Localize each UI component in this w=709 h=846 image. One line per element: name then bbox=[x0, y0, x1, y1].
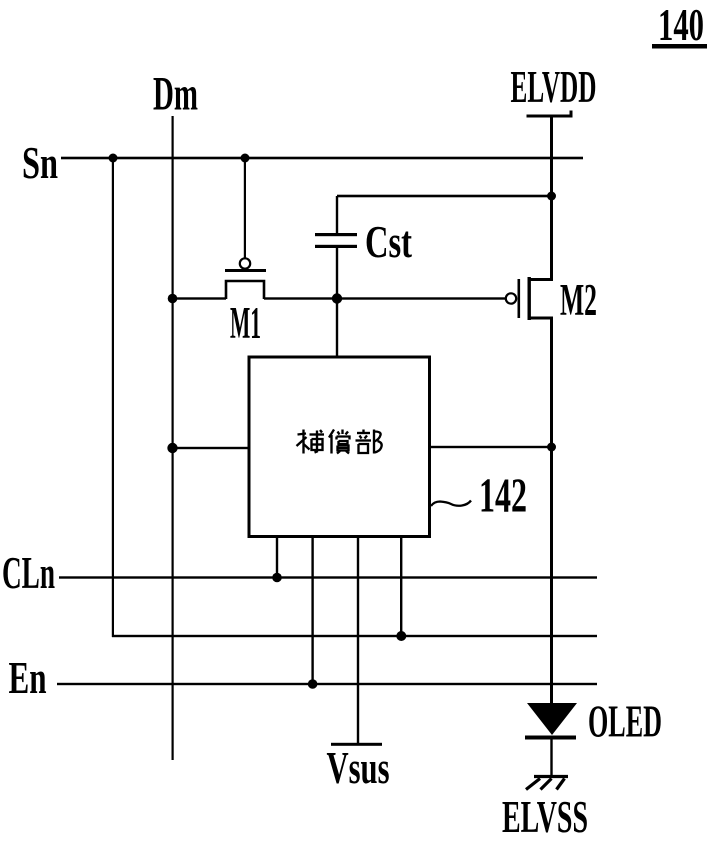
junction: Sn x left vertical bbox=[109, 154, 118, 163]
junction: pin2 x En bbox=[308, 679, 318, 689]
junction: Dm x M1 source bbox=[168, 294, 178, 304]
junction: ELVDD x cap wire bbox=[547, 192, 556, 201]
wire: En horizontal line bbox=[57, 683, 597, 685]
svg-text:En: En bbox=[9, 653, 47, 703]
svg-text:M2: M2 bbox=[560, 275, 597, 325]
junction: pin1 x CLn bbox=[272, 573, 282, 583]
wire: OLED cathode to ELVSS bbox=[550, 739, 552, 776]
svg-text:OLED: OLED bbox=[588, 697, 662, 747]
svg-text:Sn: Sn bbox=[22, 138, 58, 188]
transistor M2 gate bubble bbox=[506, 293, 516, 303]
transistor M1 channel bbox=[226, 281, 264, 299]
leader squiggle for 142 bbox=[431, 501, 471, 507]
kanji 部 bbox=[357, 432, 370, 434]
Vsus supply bar bbox=[331, 743, 382, 746]
capacitor Cst top plate bbox=[315, 233, 357, 236]
transistor M1 gate bar bbox=[225, 269, 266, 272]
compensation box (142) bbox=[249, 357, 430, 537]
wire: M2 drain vertical down to OLED bbox=[550, 318, 553, 704]
svg-text:Vsus: Vsus bbox=[327, 743, 390, 793]
svg-text:Dm: Dm bbox=[153, 68, 198, 121]
junction: Sn x M1 gate wire bbox=[241, 154, 250, 163]
svg-text:142: 142 bbox=[479, 467, 527, 522]
wire: cap top vertical bbox=[336, 196, 338, 234]
svg-text:ELVSS: ELVSS bbox=[502, 792, 588, 841]
wire: box pin 3 down to Vsus bbox=[357, 537, 359, 744]
diode OLED cathode bar bbox=[525, 736, 576, 740]
figure number 140 bbox=[652, 0, 707, 50]
wire: box pin 4 down to bottom bus bbox=[400, 537, 402, 636]
text 補償部 (compensation unit) bbox=[297, 430, 382, 454]
transistor M2 top arm (source to ELVDD) bbox=[529, 278, 553, 281]
junction: M2 drain line x box right wire bbox=[547, 443, 556, 452]
wire: ELVDD vertical to M2 bbox=[550, 116, 553, 280]
transistor M2 bottom arm (drain) bbox=[529, 317, 553, 320]
wire: bottom bus horizontal bbox=[112, 635, 597, 637]
wire: Cst top wire to ELVDD bbox=[337, 195, 551, 198]
wire: CLn horizontal line bbox=[59, 576, 597, 578]
diode OLED triangle (anode) bbox=[527, 703, 577, 735]
junction: Dm x box left wire bbox=[167, 443, 177, 453]
wire: node A to M2 gate bbox=[337, 297, 506, 299]
wire: scan line Sn horizontal bbox=[61, 157, 583, 160]
junction: node A bbox=[332, 293, 342, 303]
transistor M2 channel bar bbox=[528, 277, 531, 320]
svg-text:M1: M1 bbox=[230, 298, 261, 348]
wire: data line Dm vertical bbox=[172, 116, 174, 760]
wire: box left to Dm bbox=[174, 447, 249, 449]
kanji 補 bbox=[298, 434, 307, 435]
wire: left vertical from Sn down to bottom bus bbox=[112, 158, 114, 637]
capacitor Cst bottom plate bbox=[315, 245, 357, 248]
wire: cap bottom vertical to node A bbox=[336, 248, 338, 299]
svg-text:140: 140 bbox=[658, 0, 704, 50]
wire: box pin 1 down to CLn bbox=[276, 537, 278, 577]
svg-text:Cst: Cst bbox=[365, 217, 412, 267]
wire: box pin 2 down to En bbox=[311, 537, 313, 684]
kanji 償 bbox=[329, 430, 334, 438]
svg-text:CLn: CLn bbox=[2, 548, 55, 598]
wire: node A to box top bbox=[336, 299, 338, 357]
transistor M1 gate bubble bbox=[240, 258, 250, 268]
transistor M2 gate bar bbox=[518, 279, 521, 318]
wire: M1 gate from Sn bbox=[244, 158, 246, 258]
ELVDD supply bar bbox=[527, 115, 573, 118]
ELVSS chassis symbol bbox=[526, 777, 568, 790]
junction: pin4 x bottom bus bbox=[396, 631, 406, 641]
wire: Dm to M1 source bbox=[173, 297, 226, 299]
wire: M1 drain to node A bbox=[264, 297, 337, 299]
wire: box right to M2 drain line bbox=[430, 446, 552, 448]
svg-text:ELVDD: ELVDD bbox=[511, 62, 597, 112]
